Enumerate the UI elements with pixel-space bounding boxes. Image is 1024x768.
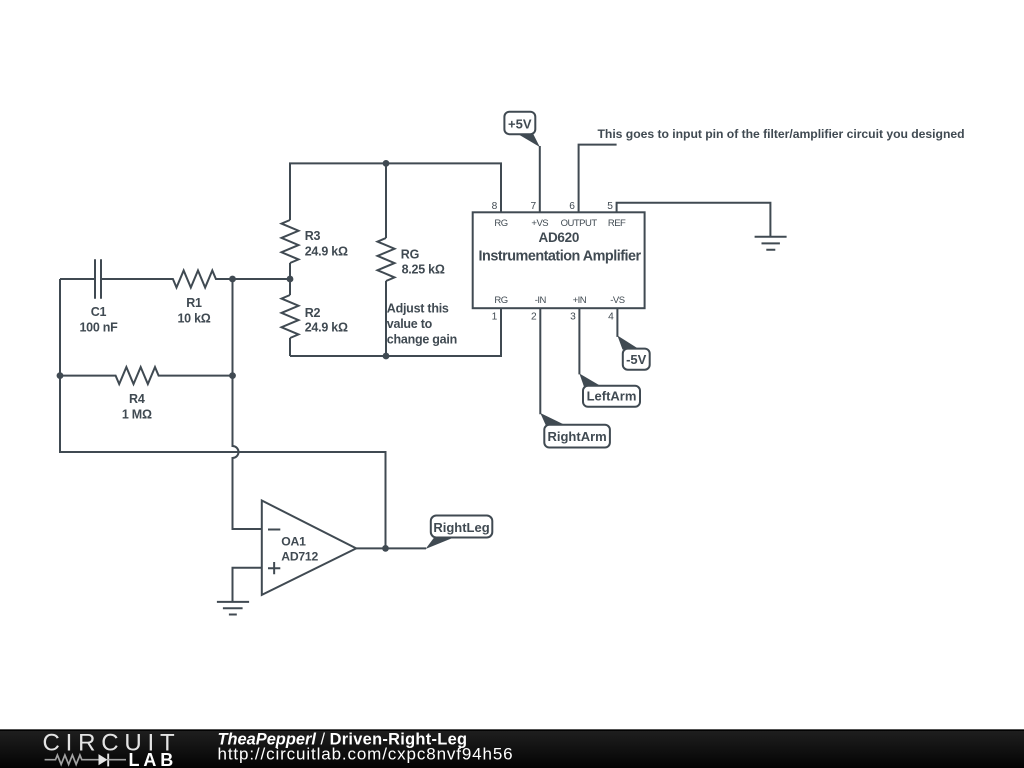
svg-text:24.9 kΩ: 24.9 kΩ (305, 244, 348, 258)
svg-text:OUTPUT: OUTPUT (561, 218, 598, 229)
svg-text:R2: R2 (305, 306, 321, 320)
svg-text:1: 1 (492, 311, 498, 322)
svg-text:RightArm: RightArm (547, 429, 606, 444)
svg-text:value to: value to (387, 317, 433, 331)
svg-text:1 MΩ: 1 MΩ (122, 407, 152, 421)
svg-text:6: 6 (569, 201, 575, 212)
svg-text:change gain: change gain (387, 333, 457, 347)
svg-text:R3: R3 (305, 229, 321, 243)
svg-text:RG: RG (401, 248, 419, 262)
svg-text:AD712: AD712 (281, 550, 318, 564)
svg-text:-5V: -5V (626, 352, 647, 367)
svg-text:R4: R4 (129, 392, 145, 406)
svg-text:OA1: OA1 (281, 535, 306, 549)
svg-text:3: 3 (570, 311, 576, 322)
svg-text:2: 2 (531, 311, 537, 322)
svg-text:8.25 kΩ: 8.25 kΩ (402, 262, 445, 276)
svg-text:R1: R1 (186, 296, 202, 310)
svg-text:+5V: +5V (508, 117, 532, 132)
svg-text:+VS: +VS (531, 218, 548, 229)
svg-text:+IN: +IN (573, 295, 587, 306)
svg-text:4: 4 (608, 311, 614, 322)
svg-text:-IN: -IN (535, 295, 547, 306)
svg-text:C1: C1 (91, 305, 107, 319)
svg-text:This goes to input pin of the: This goes to input pin of the filter/amp… (598, 127, 965, 141)
svg-text:24.9 kΩ: 24.9 kΩ (305, 320, 348, 334)
svg-text:Instrumentation Amplifier: Instrumentation Amplifier (479, 248, 642, 264)
svg-text:10 kΩ: 10 kΩ (177, 311, 210, 325)
svg-text:AD620: AD620 (539, 230, 580, 245)
svg-text:Adjust this: Adjust this (387, 302, 449, 316)
svg-text:7: 7 (530, 201, 536, 212)
svg-text:8: 8 (492, 201, 498, 212)
svg-text:http://circuitlab.com/cxpc8nvf: http://circuitlab.com/cxpc8nvf94h56 (218, 745, 514, 764)
svg-text:-VS: -VS (610, 295, 625, 306)
svg-text:100 nF: 100 nF (79, 321, 118, 335)
svg-text:REF: REF (608, 218, 626, 229)
svg-text:5: 5 (607, 201, 613, 212)
svg-text:LAB: LAB (129, 750, 178, 768)
svg-text:RG: RG (494, 218, 507, 229)
svg-text:RightLeg: RightLeg (433, 520, 489, 535)
svg-text:LeftArm: LeftArm (587, 389, 637, 404)
svg-text:RG: RG (494, 295, 507, 306)
